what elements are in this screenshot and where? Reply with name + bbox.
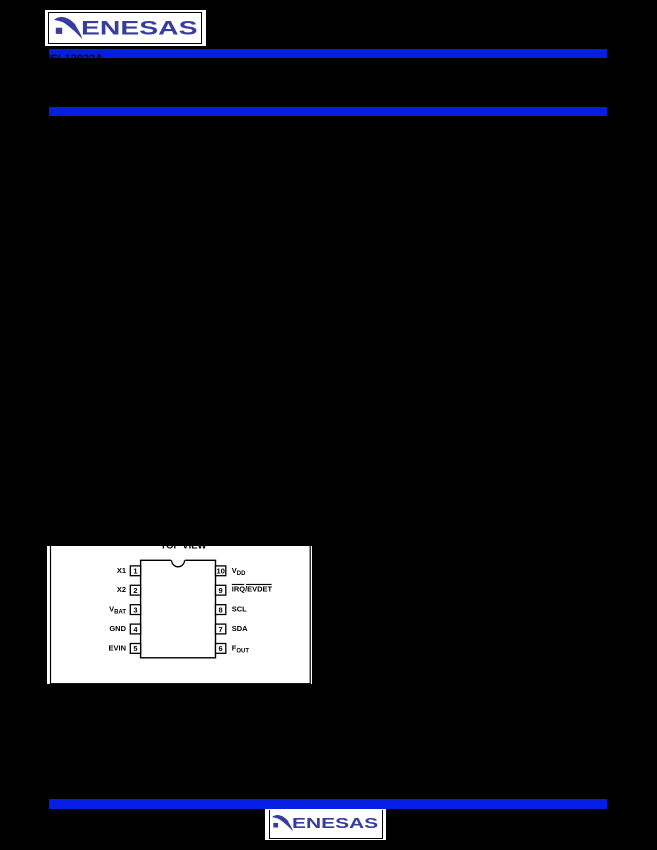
svg-text:9: 9 xyxy=(219,586,223,595)
pin 8 box xyxy=(215,605,225,615)
svg-text:SDA: SDA xyxy=(232,624,248,633)
svg-text:3: 3 xyxy=(133,606,137,615)
svg-text:5: 5 xyxy=(133,644,137,653)
overline EVDET xyxy=(246,584,271,585)
footer blue bar xyxy=(49,799,607,809)
svg-text:8: 8 xyxy=(219,606,223,615)
footer logo box border left xyxy=(269,810,270,840)
svg-text:ENESAS: ENESAS xyxy=(81,18,198,40)
svg-text:7: 7 xyxy=(219,625,223,634)
figure inner border bottom xyxy=(50,683,311,684)
header logo box border xyxy=(48,12,202,44)
svg-text:SCL: SCL xyxy=(232,605,247,614)
Renesas logo (header) xyxy=(54,17,200,41)
pin 5 box xyxy=(130,644,140,654)
svg-text:1: 1 xyxy=(133,567,137,576)
chip notch xyxy=(172,560,185,566)
svg-text:X1: X1 xyxy=(117,566,126,575)
figure white background xyxy=(47,546,312,684)
svg-text:TOP VIEW: TOP VIEW xyxy=(160,546,206,551)
pin 10 box xyxy=(215,566,225,576)
pin 2 box xyxy=(130,585,140,595)
chip body U1 xyxy=(141,560,216,657)
header logo white box xyxy=(45,10,206,46)
part number text ISL12022A (black, top overlaps bar 1) xyxy=(48,54,104,65)
footer logo box border right xyxy=(382,810,383,840)
footer logo white box xyxy=(265,809,386,840)
svg-text:6: 6 xyxy=(219,644,223,653)
blue bar 1 xyxy=(49,49,607,58)
pin 3 box xyxy=(130,605,140,615)
svg-text:IRQ/EVDET: IRQ/EVDET xyxy=(232,585,273,594)
svg-text:10: 10 xyxy=(216,567,225,576)
svg-text:EVIN: EVIN xyxy=(109,644,126,653)
pinout figure box xyxy=(47,546,312,684)
pin 4 box xyxy=(130,624,140,634)
pin 7 box xyxy=(215,624,225,634)
svg-text:ENESAS: ENESAS xyxy=(292,816,379,832)
Renesas logo (footer) xyxy=(272,815,380,833)
overline IRQ xyxy=(232,584,244,585)
svg-text:2: 2 xyxy=(133,586,137,595)
svg-text:X2: X2 xyxy=(117,585,126,594)
figure inner border right xyxy=(310,546,311,684)
chip notch erase xyxy=(171,559,185,562)
pin 1 box xyxy=(130,566,140,576)
pin 6 box xyxy=(215,644,225,654)
svg-text:GND: GND xyxy=(109,624,126,633)
pin 9 box xyxy=(215,585,225,595)
footer logo box border bottom xyxy=(269,838,383,839)
blue bar 2 xyxy=(49,107,607,116)
figure inner border left xyxy=(50,546,51,684)
